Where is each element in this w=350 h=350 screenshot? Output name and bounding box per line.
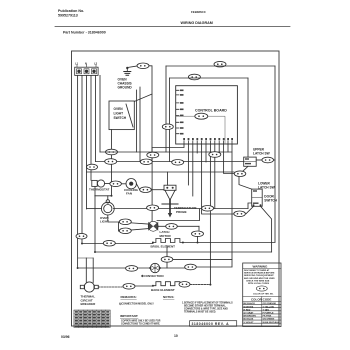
svg-text:SWITCH: SWITCH bbox=[114, 116, 127, 120]
svg-text:LIGHT: LIGHT bbox=[114, 112, 124, 116]
control board label bbox=[195, 109, 227, 113]
svg-text:V VIOLET: V VIOLET bbox=[244, 322, 255, 324]
header part number text bbox=[63, 31, 106, 35]
svg-text:ⓆCONNECTION MODEL ONLY: ⓆCONNECTION MODEL ONLY bbox=[119, 302, 154, 306]
wire label oval on rail drops bbox=[162, 124, 173, 130]
wire w4 from terminal block down to thermostat bbox=[90, 75, 92, 180]
oven chassis ground label bbox=[118, 78, 133, 90]
table cell content marks bbox=[75, 311, 110, 327]
svg-text:TERMINALS MUST BE USED.: TERMINALS MUST BE USED. bbox=[184, 311, 216, 314]
wire label oval row1 right bbox=[209, 152, 221, 158]
thermostat label bbox=[89, 187, 110, 191]
svg-text:N: N bbox=[85, 62, 87, 66]
wire label oval row5 b bbox=[202, 206, 214, 212]
svg-text:IMPORTANT:: IMPORTANT: bbox=[120, 314, 138, 318]
junction dot thermostat drop row bbox=[94, 251, 96, 253]
junction dot convection corner bbox=[197, 242, 199, 244]
lower latch switch label bbox=[258, 182, 275, 190]
wire lamp top nub stem bbox=[107, 196, 109, 200]
wire door switch bottom left to oval bbox=[246, 206, 254, 214]
wire broil row bbox=[82, 243, 153, 245]
svg-text:1.SERVICE IF REPLACEMENT OF TE: 1.SERVICE IF REPLACEMENT OF TERMINALS bbox=[182, 302, 233, 305]
wire label oval broil row bbox=[103, 240, 115, 246]
wire label oval on switch drop bbox=[106, 149, 118, 155]
svg-text:OR ORANGE: OR ORANGE bbox=[263, 302, 277, 305]
svg-text:5995279113: 5995279113 bbox=[58, 14, 78, 18]
wire label oval GY ground wire bbox=[137, 63, 149, 69]
wire motor row bend down bbox=[198, 226, 200, 231]
cooling fan label bbox=[124, 188, 139, 196]
wire label oval on rail B bbox=[188, 74, 200, 80]
wire w1 from terminal block down to convection row bbox=[77, 75, 79, 268]
oven light label bbox=[100, 216, 109, 224]
svg-text:COLOR CODE: COLOR CODE bbox=[251, 298, 271, 302]
svg-text:OVEN: OVEN bbox=[114, 107, 124, 111]
svg-text:CONTROL BOARD: CONTROL BOARD bbox=[195, 109, 227, 113]
wire short row near probe bbox=[157, 209, 200, 221]
wire upper latch to oval bbox=[256, 159, 262, 161]
svg-text:GROUND: GROUND bbox=[118, 86, 133, 90]
wire row 2 bbox=[96, 161, 244, 163]
svg-text:REMARKS:: REMARKS: bbox=[121, 295, 137, 299]
header rule line bbox=[55, 26, 290, 28]
svg-text:LATCH SW: LATCH SW bbox=[253, 152, 270, 156]
junction dot broil feed bbox=[81, 243, 83, 245]
wire rail B right drop to upper latch switch bbox=[247, 78, 249, 157]
thermal circuit breaker label bbox=[81, 295, 97, 307]
svg-text:SERVICE ENTRANCE BEFORE: SERVICE ENTRANCE BEFORE bbox=[244, 272, 275, 275]
svg-text:COPPER WIRE ONLY BE USED FOR: COPPER WIRE ONLY BE USED FOR bbox=[121, 321, 161, 323]
wire broil element right to rail bbox=[183, 242, 275, 244]
wire broil to convection drop bbox=[166, 246, 168, 269]
wire lamp right row 5 bbox=[113, 208, 248, 210]
wire pin3 stub bbox=[192, 144, 194, 196]
svg-text:FAN: FAN bbox=[126, 192, 132, 196]
remarks note bbox=[119, 295, 154, 306]
convection fan M3 bbox=[149, 263, 161, 272]
thermal circuit breaker CB1 bbox=[78, 258, 99, 292]
oven chassis ground symbol bbox=[124, 67, 131, 76]
wire rail A top bbox=[166, 65, 275, 67]
svg-text:BR BROWN: BR BROWN bbox=[244, 316, 257, 318]
wire rail B left drop bbox=[169, 78, 171, 162]
oven light switch box SW1 bbox=[109, 101, 134, 130]
wire w2 from terminal block down to broil row bbox=[81, 75, 83, 243]
wire label oval convection row bbox=[126, 266, 138, 272]
control board bottom pin labels bbox=[183, 138, 233, 140]
wire row5 up to door switch bbox=[248, 203, 252, 209]
wire motor feed row a bbox=[119, 222, 149, 224]
wire oven light switch down to junction bbox=[111, 130, 113, 196]
wire label oval row2 b bbox=[140, 159, 152, 165]
svg-text:BU BLUE: BU BLUE bbox=[244, 319, 254, 321]
wire oval stub to broil row bbox=[197, 237, 199, 243]
svg-text:BROIL ELEMENT: BROIL ELEMENT bbox=[151, 245, 176, 249]
wire ground drop down right of oven light switch bbox=[149, 66, 152, 162]
oven light switch lever bbox=[126, 104, 133, 127]
wire label oval on rail A bbox=[214, 61, 226, 67]
svg-text:03/96: 03/96 bbox=[61, 335, 70, 339]
wire label oval on drop bbox=[161, 257, 173, 263]
svg-text:Y YELLOW: Y YELLOW bbox=[263, 306, 275, 308]
wire label oval upper latch bbox=[262, 157, 274, 163]
wire label oval row1 mid bbox=[147, 152, 159, 158]
latch motor label bbox=[160, 230, 172, 238]
wire thermostat return drop bbox=[94, 187, 96, 253]
svg-text:MOTOR: MOTOR bbox=[160, 234, 172, 238]
wire pin7 to motor return row bbox=[209, 144, 211, 285]
svg-text:WARNING: WARNING bbox=[253, 265, 269, 269]
svg-text:10: 10 bbox=[174, 334, 178, 338]
oven light switch label bbox=[114, 107, 127, 120]
wire oval to bake element bbox=[135, 285, 153, 287]
door switch label bbox=[264, 195, 277, 203]
wire pin11 stub bbox=[227, 144, 229, 152]
wire lamp left feed bbox=[87, 208, 102, 210]
junction dot switch drop bbox=[111, 195, 113, 197]
wire pin10 to latch oval bbox=[224, 144, 235, 174]
svg-text:BAKE ELEMENT: BAKE ELEMENT bbox=[151, 288, 175, 292]
wire latch oval down to door switch lever bbox=[239, 177, 252, 190]
warning and color code box bbox=[243, 263, 281, 327]
wire oven light switch top to ground drop bbox=[134, 94, 152, 102]
wire label oval above broil row bbox=[192, 231, 204, 237]
notes paragraph bbox=[182, 302, 233, 314]
svg-text:COLOR OF TER. NO.: COLOR OF TER. NO. bbox=[253, 294, 274, 296]
svg-text:DISCONNECT POWER AT: DISCONNECT POWER AT bbox=[244, 269, 270, 272]
oven light lamp DS1 bbox=[101, 200, 114, 215]
header model number FEB386CC bbox=[191, 10, 207, 14]
wiring harness table bottom left bbox=[74, 310, 110, 328]
wire label oval right of convection bbox=[185, 264, 197, 270]
notes heading bbox=[163, 295, 174, 299]
wire breaker to bake oval dashed bbox=[98, 286, 123, 288]
wire thermostat to oval bbox=[105, 183, 110, 185]
wire convection row bbox=[78, 267, 151, 269]
svg-text:GY GRAY: GY GRAY bbox=[244, 312, 254, 315]
svg-text:P PURPLE: P PURPLE bbox=[263, 313, 274, 315]
wire convection row to right rail bbox=[196, 266, 232, 268]
wire label oval row5 a bbox=[147, 205, 159, 211]
wire label oval bake row bbox=[123, 284, 135, 290]
broil element R1 bbox=[152, 239, 184, 244]
wire pin9 stub bbox=[218, 144, 220, 153]
wire door switch bottom right drop bbox=[261, 206, 272, 252]
bake element label bbox=[151, 288, 175, 292]
wire bake element right dashed to pin7 drop bbox=[190, 284, 210, 286]
wire branch to switch parallel drop b bbox=[136, 90, 138, 152]
wire label oval right of motor bbox=[166, 224, 178, 230]
wire label oval on w4 bbox=[87, 164, 98, 170]
temperature probe plug P1 bbox=[164, 185, 176, 200]
header publication number text bbox=[58, 9, 84, 18]
wire pin1 to latch motor bbox=[152, 144, 184, 221]
control board bottom pins bbox=[184, 141, 232, 144]
svg-text:BK BLACK: BK BLACK bbox=[244, 302, 256, 305]
wire label oval right of fan bbox=[140, 187, 152, 193]
header title WIRING DIAGRAM bbox=[181, 21, 213, 25]
svg-text:T TAN: T TAN bbox=[263, 308, 270, 311]
latch motor M2 bbox=[148, 221, 158, 231]
svg-text:✱CONVECTION: ✱CONVECTION bbox=[141, 274, 164, 278]
important note bbox=[120, 314, 161, 326]
svg-text:W WHITE: W WHITE bbox=[244, 306, 254, 308]
wire oval to probe plug bbox=[151, 189, 164, 191]
svg-text:NOTES:: NOTES: bbox=[163, 295, 174, 299]
svg-text:Publication No.: Publication No. bbox=[58, 9, 84, 13]
svg-text:R RED: R RED bbox=[244, 309, 251, 311]
wire pin12 long drop bbox=[231, 144, 233, 267]
svg-text:W-BK WHT-BLK: W-BK WHT-BLK bbox=[263, 322, 280, 324]
footer date bbox=[61, 335, 70, 339]
wire pin8 to lamp row bbox=[214, 144, 216, 209]
bake element R2 bbox=[152, 282, 184, 287]
wire label oval on w2 bbox=[76, 233, 87, 239]
svg-text:WITH LOCAL CODES: WITH LOCAL CODES bbox=[248, 282, 270, 285]
svg-text:Part Number - 318046000: Part Number - 318046000 bbox=[63, 31, 106, 35]
footer page number bbox=[174, 334, 178, 338]
terminal L1 label bbox=[75, 62, 79, 66]
svg-text:THERMOSTAT: THERMOSTAT bbox=[89, 187, 110, 191]
wire rail A left drop bbox=[165, 66, 167, 152]
control board oval marking bbox=[195, 113, 208, 119]
svg-text:GN GREEN: GN GREEN bbox=[263, 319, 275, 321]
wire probe plug top stub bbox=[167, 172, 169, 185]
wire w5 from terminal block down to row 2 bbox=[95, 75, 97, 161]
wire upper latch oval to rail A bbox=[274, 159, 276, 161]
wire pin5 to door switch oval row bbox=[202, 144, 234, 214]
upper latch switch S2 bbox=[244, 157, 257, 166]
wire row from drop to pin12 drop bbox=[167, 258, 232, 260]
terminal block TB1 bbox=[75, 65, 98, 76]
wire fan to oval bbox=[136, 184, 139, 190]
wire pin6 to row 2 bbox=[205, 144, 207, 162]
wire w6 from terminal block down to row 1 bbox=[99, 75, 101, 152]
wire label oval row2 c bbox=[172, 160, 184, 166]
wire label oval below door switch bbox=[234, 211, 246, 217]
terminal N label bbox=[85, 62, 87, 66]
wire row 3 long bbox=[87, 171, 235, 173]
wire row 1 bbox=[100, 151, 232, 153]
svg-text:CONNECTIONS TO CONDUIT WIRE.: CONNECTIONS TO CONDUIT WIRE. bbox=[121, 324, 160, 326]
wire latch motor right bbox=[158, 225, 199, 227]
svg-text:SWITCH: SWITCH bbox=[264, 199, 277, 203]
svg-text:AND GROUND MUST BE USED: AND GROUND MUST BE USED bbox=[244, 277, 275, 280]
wire w3 from terminal block down to oven light bbox=[86, 75, 88, 209]
wire pin2 stub bbox=[187, 144, 189, 185]
control board U1 outline bbox=[176, 86, 238, 144]
wire label oval latch mid bbox=[234, 171, 246, 177]
wire ground symbol to oval bbox=[127, 66, 137, 68]
wire branch to switch parallel drop a bbox=[139, 87, 141, 162]
temperature probe label bbox=[174, 206, 197, 214]
cooling fan motor M1 bbox=[126, 179, 136, 189]
wire rail B bbox=[170, 77, 249, 79]
svg-text:FEB386CC: FEB386CC bbox=[191, 10, 207, 14]
terminal L2 label bbox=[94, 62, 98, 66]
control board left pins bbox=[176, 90, 179, 133]
wire label oval right of bake element bbox=[179, 282, 190, 288]
wire label oval motor row a bbox=[119, 219, 131, 225]
wire long row to door drop bbox=[95, 251, 272, 253]
wire rail A right drop bbox=[274, 66, 276, 242]
svg-text:BREAKER: BREAKER bbox=[81, 302, 97, 306]
diagram border frame bbox=[72, 51, 280, 326]
wire label oval motor row b bbox=[119, 228, 131, 234]
wire lamp bottom drop bbox=[108, 215, 119, 231]
svg-text:CONNECTORS & WIRE TYPE, SIZE A: CONNECTORS & WIRE TYPE, SIZE AND bbox=[184, 308, 228, 311]
wire pin4 stub bbox=[196, 144, 198, 153]
junction dot bake right riser bbox=[209, 284, 211, 286]
wire label oval row2 a bbox=[105, 159, 117, 165]
door switch S3 bbox=[252, 189, 263, 206]
svg-text:BECOME EITHER HEATER TERMINAL.: BECOME EITHER HEATER TERMINAL. bbox=[184, 305, 227, 308]
control board left pin labels bbox=[180, 90, 184, 135]
wire label oval right of thermostat bbox=[110, 181, 122, 187]
svg-text:WIRING DIAGRAM: WIRING DIAGRAM bbox=[181, 21, 213, 25]
svg-text:PK PINK: PK PINK bbox=[263, 316, 272, 318]
revision box 318046000 REV A bbox=[190, 321, 237, 327]
wire motor feed row b bbox=[119, 229, 149, 231]
wire oval to cooling fan bbox=[121, 183, 125, 185]
wire upper latch bottom to oval bbox=[243, 166, 248, 171]
svg-text:318046000 REV. A: 318046000 REV. A bbox=[192, 322, 230, 326]
color code table bbox=[243, 296, 281, 298]
wire convection fan right bbox=[160, 267, 185, 269]
warning box oval symbol bbox=[256, 286, 267, 291]
convection label bbox=[141, 274, 164, 278]
junction dot convection feed bbox=[77, 267, 79, 269]
control board inner partition line bbox=[176, 116, 225, 144]
temperature probe body bbox=[162, 200, 178, 218]
broil element label bbox=[151, 245, 176, 249]
upper latch switch label bbox=[253, 148, 270, 156]
thermostat TH1 bbox=[92, 180, 105, 187]
svg-text:PROBE: PROBE bbox=[176, 210, 187, 214]
wire junction row above lamp bbox=[95, 195, 112, 197]
